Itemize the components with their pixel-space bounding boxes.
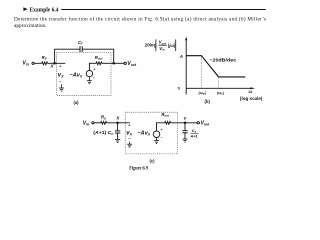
svg-text:(jω): (jω) — [168, 43, 176, 48]
svg-text:(A+1) CF: (A+1) CF — [93, 130, 113, 136]
label minus of vX port (c) — [128, 136, 131, 141]
svg-text:A+1: A+1 — [189, 134, 198, 139]
svg-text:−20dB/dec: −20dB/dec — [209, 58, 236, 63]
label A — [179, 54, 183, 59]
label minus of vX port (a) — [59, 78, 62, 83]
svg-text:Vin: Vin — [22, 60, 28, 66]
svg-text:Rout: Rout — [95, 55, 104, 61]
svg-text:Vin: Vin — [159, 46, 165, 52]
svg-text:(log scale): (log scale) — [240, 96, 263, 101]
svg-text:+: + — [59, 65, 62, 69]
y-axis label left magnitude bar — [155, 39, 157, 51]
wire source top to Rout (c) — [157, 123, 165, 131]
svg-text:+: + — [128, 123, 131, 127]
svg-text:+: + — [93, 68, 95, 72]
label (b) — [205, 99, 211, 104]
ground under output cap (c) — [183, 139, 188, 142]
y-axis label Vin denominator — [159, 46, 165, 52]
label plus of source (c) — [161, 128, 163, 132]
label plus of source (a) — [93, 68, 95, 72]
svg-text:(b): (b) — [205, 99, 211, 104]
label minus of source (a) — [93, 76, 95, 80]
amplifier model dashed box (c) — [125, 112, 178, 154]
svg-text:Rout: Rout — [161, 112, 170, 118]
label (c) — [149, 159, 155, 164]
problem text line 2 — [14, 23, 47, 29]
svg-text:(a): (a) — [73, 100, 79, 105]
dependent source -AvX circle (a) — [86, 70, 92, 76]
node X (a) — [53, 62, 56, 65]
svg-text:RS: RS — [101, 115, 106, 121]
resistor RS (c) — [101, 121, 107, 124]
svg-text:0: 0 — [178, 86, 181, 91]
tick label |wp| — [199, 90, 206, 96]
x-axis line — [186, 87, 251, 89]
y-axis label Vout numerator — [159, 40, 167, 46]
resistor RS (a) — [42, 62, 48, 65]
capacitor CF (a) — [80, 46, 82, 52]
label (log scale) — [240, 96, 263, 101]
label Vin (c) — [83, 121, 89, 127]
label (A+1) CF (c) — [93, 130, 113, 136]
wire Y down to output cap (c) — [184, 123, 186, 131]
ground under source (a) — [87, 77, 92, 84]
wire CF rail left segment (a) — [54, 48, 80, 50]
wire Vin to RS (c) — [94, 122, 101, 124]
problem text line 1 — [14, 16, 266, 23]
node Vout terminal (c) — [197, 122, 199, 124]
svg-text:|ωp|: |ωp| — [199, 90, 206, 96]
label X (a) — [50, 64, 55, 69]
svg-text:X: X — [50, 64, 55, 69]
label Vout (c) — [201, 121, 211, 127]
svg-text:Vout: Vout — [127, 61, 137, 67]
svg-text:+: + — [161, 128, 163, 132]
svg-text:Vout: Vout — [201, 121, 211, 127]
dotted line at wp — [200, 56, 202, 89]
wire Rout through Y to Vout terminal (c) — [171, 122, 198, 124]
dotted line at wz — [218, 77, 220, 88]
ground under Miller cap (c) — [115, 139, 120, 142]
label plus of vX port (a) — [59, 65, 62, 69]
label vX (c) — [126, 131, 132, 137]
svg-text:Vout: Vout — [159, 40, 167, 46]
wire source top to Rout (a) — [89, 63, 96, 70]
node Vin terminal (c) — [92, 122, 94, 124]
ground under source (c) — [154, 138, 159, 144]
label -AvX (c) — [137, 131, 151, 137]
svg-text:ω: ω — [249, 89, 253, 94]
label minus of source (c) — [160, 136, 162, 140]
fraction bar of CF/(A+1) (c) — [190, 132, 198, 134]
node output junction (a) — [112, 62, 115, 65]
y-axis line — [185, 39, 187, 95]
node Y (c) — [184, 122, 187, 125]
svg-text:(c): (c) — [149, 159, 155, 164]
capacitor CF/(A+1) (c) — [182, 131, 187, 133]
svg-text:−AvX: −AvX — [137, 131, 151, 137]
label X (c) — [115, 116, 120, 121]
node X (c) — [116, 122, 119, 125]
svg-text:−: − — [59, 78, 62, 83]
label CF (a) — [78, 40, 83, 46]
label (a) — [73, 100, 79, 105]
svg-text:CF: CF — [78, 40, 83, 46]
node Vout terminal (a) — [124, 62, 126, 64]
wire Vin to RS (a) — [34, 62, 41, 64]
ground under vX (c) — [127, 142, 132, 147]
label -20dB/dec — [209, 58, 236, 63]
wire RS through X into box (c) — [107, 122, 130, 124]
label vX (a) — [58, 72, 64, 78]
x-axis arrowhead — [251, 87, 256, 89]
svg-text:Figure 6.9: Figure 6.9 — [129, 166, 148, 171]
y-axis label right magnitude bar — [175, 39, 177, 51]
svg-text:Determine the transfer functio: Determine the transfer function of the c… — [14, 16, 266, 23]
label Y (c) — [184, 116, 188, 121]
svg-text:|ωz|: |ωz| — [217, 90, 224, 96]
node Vin terminal (a) — [32, 62, 34, 64]
y-axis label (jw) — [168, 43, 176, 48]
svg-text:−: − — [160, 136, 162, 140]
wire output cap to ground (c) — [184, 133, 186, 139]
heading rule — [61, 9, 266, 10]
heading text Example 6.4 — [30, 7, 59, 13]
heading marker triangle — [23, 7, 27, 11]
label RS (a) — [42, 55, 47, 61]
svg-text:−: − — [128, 136, 131, 141]
label -AvX (a) — [70, 73, 84, 79]
capacitor (A+1)CF (c) — [115, 131, 120, 133]
wire CF rail right segment down to output node (a) — [82, 49, 113, 63]
label Vin (a) — [22, 60, 28, 66]
svg-text:−AvX: −AvX — [70, 73, 84, 79]
svg-text:RS: RS — [42, 55, 47, 61]
svg-text:A: A — [179, 54, 183, 59]
svg-text:Y: Y — [184, 116, 188, 121]
label Rout (c) — [161, 112, 170, 118]
wire Rout to output node (a) — [102, 62, 114, 64]
resistor Rout (c) — [165, 121, 171, 124]
y-axis label 20log — [145, 42, 157, 47]
svg-text:20log: 20log — [145, 42, 157, 47]
label A+1 denominator (c) — [189, 134, 198, 139]
wire X up to CF rail (a) — [54, 49, 56, 63]
dependent source -AvX circle (c) — [153, 131, 160, 138]
svg-text:approximation.: approximation. — [14, 23, 47, 29]
label CF over A+1 fraction (c) — [192, 128, 197, 134]
resistor Rout (a) — [96, 62, 102, 65]
label Vout (a) — [127, 61, 137, 67]
label 0 — [178, 86, 181, 91]
label RS (c) — [101, 115, 106, 121]
label Rout (a) — [95, 55, 104, 61]
ground under vX (a) — [59, 84, 64, 91]
wire RS to X and into box (a) — [48, 62, 66, 64]
bode curve — [186, 56, 245, 77]
tick label |wz| — [217, 90, 224, 96]
label omega — [249, 89, 253, 94]
figure caption Figure 6.9 — [129, 166, 148, 171]
svg-text:X: X — [115, 116, 120, 121]
label plus of vX port (c) — [128, 123, 131, 127]
y-axis arrowhead — [185, 37, 187, 41]
svg-text:Example 6.4: Example 6.4 — [30, 7, 59, 13]
y-axis label fraction bar — [158, 44, 167, 46]
svg-text:−: − — [93, 76, 95, 80]
svg-text:Vin: Vin — [83, 121, 89, 127]
wire X down to Miller cap (c) — [117, 123, 119, 131]
wire to Vout terminal (a) — [114, 62, 124, 64]
wire cap to ground (c) — [117, 133, 119, 139]
amplifier model dashed box (a) — [57, 53, 111, 96]
